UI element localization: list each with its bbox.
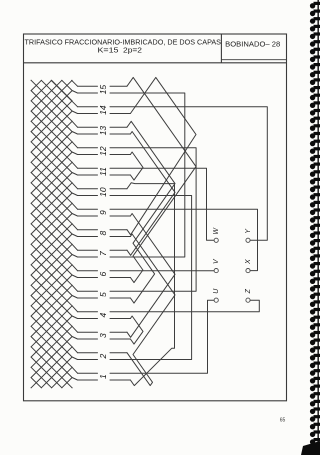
svg-text:2p=2: 2p=2 — [123, 46, 142, 54]
svg-text:8: 8 — [98, 230, 108, 235]
svg-text:65: 65 — [280, 418, 286, 424]
svg-text:11: 11 — [98, 167, 108, 176]
svg-text:BOBINADO– 28: BOBINADO– 28 — [225, 40, 280, 49]
svg-text:13: 13 — [98, 126, 108, 136]
svg-text:Z: Z — [245, 288, 252, 294]
svg-text:12: 12 — [98, 146, 108, 156]
svg-text:4: 4 — [98, 312, 108, 317]
svg-text:14: 14 — [98, 105, 108, 115]
svg-text:15: 15 — [98, 85, 108, 95]
svg-text:9: 9 — [98, 210, 108, 215]
svg-text:X: X — [245, 259, 252, 265]
svg-text:3: 3 — [98, 333, 108, 338]
svg-text:1: 1 — [98, 374, 108, 379]
svg-text:7: 7 — [98, 251, 108, 256]
svg-text:K=15: K=15 — [98, 46, 119, 54]
svg-text:6: 6 — [98, 271, 108, 276]
svg-text:10: 10 — [98, 187, 108, 197]
svg-text:2: 2 — [98, 353, 108, 359]
svg-text:5: 5 — [98, 292, 108, 297]
